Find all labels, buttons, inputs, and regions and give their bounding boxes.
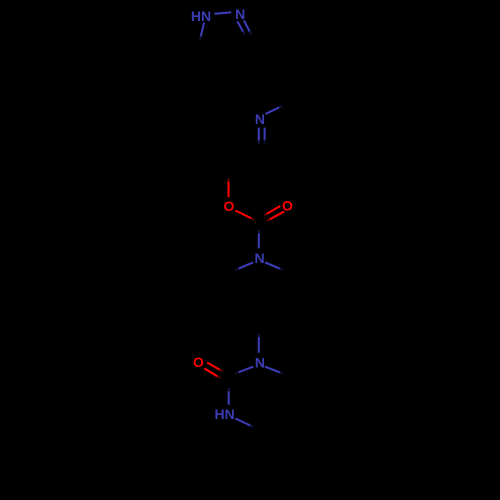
svg-text:HN: HN: [191, 8, 211, 24]
svg-text:N: N: [255, 111, 265, 127]
svg-text:N: N: [255, 250, 265, 266]
svg-text:O: O: [282, 198, 293, 214]
svg-text:N: N: [235, 6, 245, 22]
svg-text:O: O: [223, 198, 234, 214]
svg-text:N: N: [255, 355, 265, 371]
svg-text:HN: HN: [214, 406, 234, 422]
svg-text:O: O: [193, 354, 204, 370]
